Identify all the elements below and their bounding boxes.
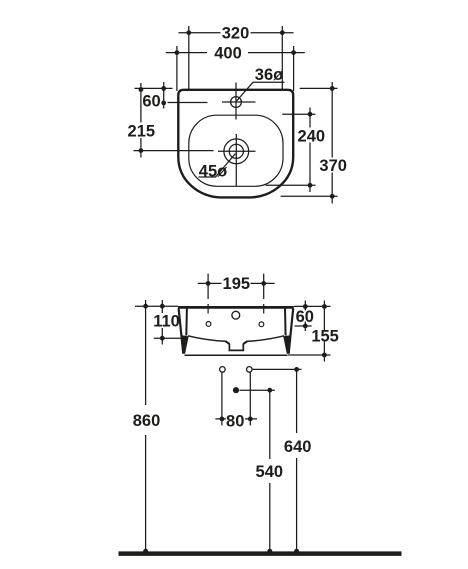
inner bowl line left xyxy=(188,336,226,342)
fixing hole left xyxy=(220,367,226,373)
leader line for 45ø xyxy=(199,154,236,178)
extension line elevation top left xyxy=(135,305,178,307)
dim line 110 xyxy=(160,300,165,345)
dim line 540 xyxy=(267,388,272,552)
extension line trap to 540 xyxy=(240,389,275,391)
drain box xyxy=(229,344,243,351)
svg-text:80: 80 xyxy=(226,413,244,431)
svg-text:640: 640 xyxy=(284,438,312,456)
extension line top left (rim level) xyxy=(135,87,173,89)
svg-text:60: 60 xyxy=(296,308,314,326)
extension line from 60 to faucet centre xyxy=(168,102,208,104)
basin bottom edge xyxy=(185,354,288,356)
extension line 320 left xyxy=(188,26,190,91)
inner bowl line right xyxy=(247,336,284,342)
extension line holes to 640 xyxy=(253,368,302,370)
extension line 370 bottom xyxy=(281,195,338,197)
svg-text:215: 215 xyxy=(128,122,156,140)
svg-text:320: 320 xyxy=(222,25,250,43)
dim line 195 xyxy=(198,281,275,286)
fixing hole right xyxy=(247,367,253,373)
inner bowl oval (plan) xyxy=(189,115,283,186)
svg-text:195: 195 xyxy=(223,275,251,293)
small hole right (elevation) xyxy=(259,322,264,327)
svg-text:155: 155 xyxy=(311,328,339,346)
extension line 240 top xyxy=(282,113,315,115)
dim line 370 xyxy=(330,82,335,204)
leader line for 36ø xyxy=(237,82,285,101)
drain 45ø outer circle xyxy=(224,139,249,164)
dim line 640 xyxy=(294,367,299,552)
svg-text:240: 240 xyxy=(298,127,326,145)
floor dot 860 xyxy=(143,549,148,554)
svg-text:400: 400 xyxy=(214,45,242,63)
extension line 155 bottom xyxy=(288,354,331,356)
extension line 80 left xyxy=(221,373,223,426)
floor dot 540 xyxy=(267,549,272,554)
extension line 60 bottom (holes level) xyxy=(295,325,312,327)
drain funnel left slant xyxy=(225,341,229,344)
svg-text:370: 370 xyxy=(319,157,347,175)
dim line 860 xyxy=(143,300,148,552)
dim line 240 xyxy=(308,108,313,193)
extension line 215 bottom (drain level) xyxy=(134,150,214,152)
basin outline (plan) xyxy=(178,90,293,198)
extension line 400 left xyxy=(176,46,178,91)
right wall solid wedge xyxy=(283,335,290,354)
extension line 320 right xyxy=(281,26,283,91)
svg-text:60: 60 xyxy=(142,93,160,111)
svg-text:36ø: 36ø xyxy=(255,66,283,84)
dim line 80 xyxy=(215,417,257,422)
faucet hole (elevation) xyxy=(232,311,240,319)
dim line 60 (elevation) xyxy=(303,301,308,332)
svg-text:540: 540 xyxy=(256,463,284,481)
dim line 215 xyxy=(139,83,144,158)
drain funnel right slant xyxy=(243,341,247,344)
svg-text:110: 110 xyxy=(153,313,180,331)
right inner wall xyxy=(284,309,287,336)
left outer wall xyxy=(179,308,184,353)
faucet crosshair horizontal xyxy=(222,101,256,103)
extension line elevation top right xyxy=(294,305,331,307)
dim line 400 xyxy=(166,50,305,55)
svg-text:860: 860 xyxy=(133,412,161,430)
basin rim (elevation, thick top edge) xyxy=(178,306,294,309)
right outer wall xyxy=(289,308,294,353)
drain crosshair horizontal xyxy=(218,150,256,152)
dim line 155 xyxy=(322,301,327,362)
drain 45ø inner circle xyxy=(229,144,243,158)
floor dot 640 xyxy=(294,549,299,554)
drain trap point (filled dot) xyxy=(233,387,239,393)
left inner wall xyxy=(185,309,188,336)
faucet crosshair vertical xyxy=(235,83,237,120)
extension line 240 bottom xyxy=(266,184,316,186)
dim line 320 xyxy=(179,30,294,35)
extension line top right (rim level) xyxy=(300,87,338,89)
drain crosshair vertical xyxy=(235,134,237,187)
floor line xyxy=(119,551,402,556)
faucet hole 36ø (plan) xyxy=(231,97,242,108)
extension line 80 right xyxy=(249,373,251,426)
left wall solid wedge xyxy=(182,335,189,354)
extension line 195 left xyxy=(207,274,209,314)
extension line 195 right xyxy=(263,274,265,314)
extension line 400 right xyxy=(293,46,295,91)
extension line 110 bottom xyxy=(154,337,187,339)
small hole left (elevation) xyxy=(206,322,211,327)
dim line 60 (plan left) xyxy=(161,82,166,109)
